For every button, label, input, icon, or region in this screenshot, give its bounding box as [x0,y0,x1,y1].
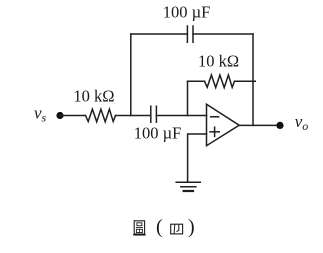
caption glyph si (four) [171,224,183,234]
wire right vertical down to output [252,34,254,125]
svg-text:100 µF: 100 µF [134,124,182,143]
svg-text:(: ( [156,216,163,238]
capacitor C2 100 uF (top feedback) left plate [186,26,188,42]
wire top horizontal to capacitor C2 [131,33,188,35]
op-amp U1 triangle [207,104,240,145]
wire noninverting input to ground [188,134,207,182]
wire resistor R2 to output vertical [235,80,256,82]
wire feedback left vertical from node B [187,81,189,115]
svg-text:10 kΩ: 10 kΩ [73,87,114,106]
wire top feedback vertical from node A [130,34,132,116]
capacitor C1 100 uF (series) left plate [150,106,152,122]
svg-text:100 µF: 100 µF [163,2,211,21]
capacitor C2 right plate [192,26,194,42]
wire C2 to right vertical [193,33,253,35]
wire feedback to resistor R2 [188,80,205,82]
op-amp plus sign [210,131,219,133]
node vs input dot [56,112,63,119]
op-amp minus sign [211,116,219,118]
node vo output dot [276,122,283,129]
wire input dot to resistor R1 [60,115,86,117]
svg-text:10 kΩ: 10 kΩ [198,52,239,71]
capacitor C1 right plate [155,106,157,122]
wire C1 to op-amp inverting input, junction node B [156,115,206,117]
wire op-amp output to node vo [239,124,280,126]
svg-text:vo: vo [295,112,309,133]
wire resistor R1 to capacitor C1, with junction node A [116,115,151,117]
resistor R2 10 kOhm (feedback) [205,75,235,88]
caption figure (four) [133,221,145,235]
caption glyph tu (figure) [134,221,144,234]
resistor R1 10 kOhm (series input) [86,109,116,122]
svg-text:vs: vs [34,104,47,125]
svg-text:): ) [188,216,195,238]
ground [176,181,200,183]
